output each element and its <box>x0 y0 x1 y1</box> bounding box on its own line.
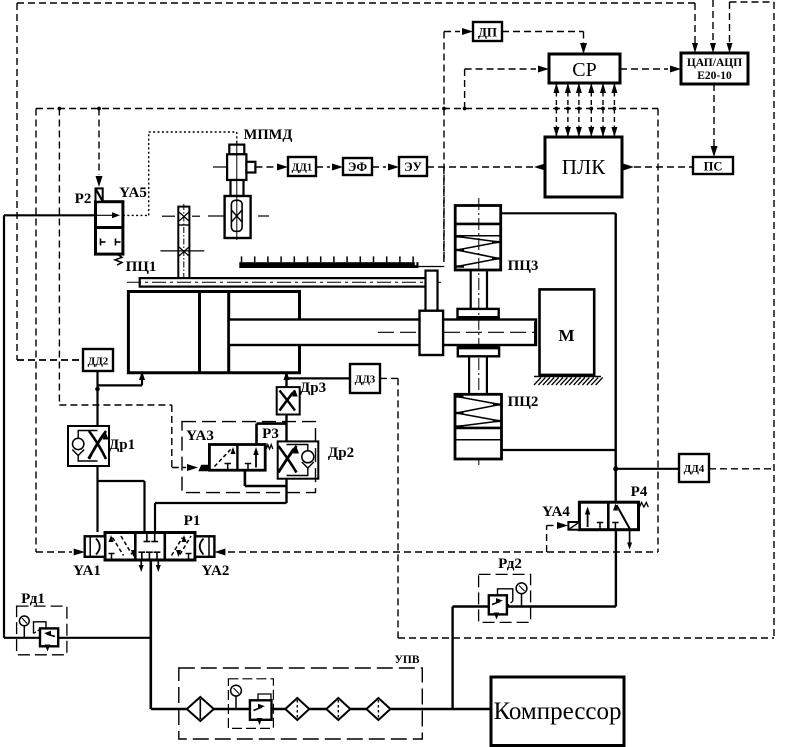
wire dashed outer top bus (DD2 to DAC) <box>17 2 695 4</box>
wire PC1 left port line <box>141 373 143 385</box>
block DAC/ADC E20-10 <box>681 53 748 84</box>
wire dashed right-side vertical bus (DD3/DD4 to DAC) <box>773 2 775 638</box>
throttle Dr1 with check valve <box>68 426 109 466</box>
main distribution valve P1 (5/3) with solenoids <box>105 533 195 561</box>
clamp block on rod <box>420 311 444 355</box>
svg-text:МПМД: МПМД <box>244 127 293 143</box>
clamp cylinder PC3 with spring <box>455 206 501 271</box>
svg-text:ПЛК: ПЛК <box>562 155 606 179</box>
wire dashed to solenoid YA4 <box>546 526 548 553</box>
port arrow left of PC1 <box>141 378 143 383</box>
wire DD3 tap <box>287 377 351 379</box>
measuring rack (ruler) with pickup head <box>239 262 418 268</box>
piston rod of PC1 <box>229 320 536 346</box>
throttle Dr2 with check valve <box>278 441 319 478</box>
clamp cylinder PC2 with spring <box>458 347 499 356</box>
block EU amplifier <box>399 157 427 176</box>
svg-text:Р3: Р3 <box>262 426 279 442</box>
svg-text:ПЦ2: ПЦ2 <box>508 394 539 410</box>
wire supply to P2 from Rd1 <box>4 214 96 216</box>
UPV internal regulator with gauge <box>228 679 273 729</box>
svg-text:ЭУ: ЭУ <box>404 160 422 174</box>
wire dashed control bus to YA2/YA4 y=552 <box>228 551 658 553</box>
wire dotted P2 to MPMD control <box>123 214 149 216</box>
wire clamp cylinders vertical to P4 <box>615 213 617 502</box>
block SR (comparator) <box>549 54 620 83</box>
wire Rd1 output line <box>4 637 151 639</box>
svg-text:Др1: Др1 <box>109 437 135 453</box>
svg-text:Рд2: Рд2 <box>498 556 522 572</box>
svg-text:Р4: Р4 <box>631 484 648 500</box>
pressure regulator Rd2 with gauge <box>479 574 531 622</box>
filter (diamond 3) <box>326 698 350 720</box>
wire P1 supply drop <box>150 560 153 709</box>
wire dashed position sensor line to DP <box>443 32 445 263</box>
svg-text:ЦАП/АЦП: ЦАП/АЦП <box>687 57 742 69</box>
wire dashed vertical into DAC from top-left bus <box>694 3 696 50</box>
svg-text:СР: СР <box>572 59 596 81</box>
wire DD2 tap stub <box>96 371 98 385</box>
block DP (position transducer) <box>473 22 502 41</box>
block DD4 pressure sensor <box>679 454 709 482</box>
wire dashed DD3 to right bus <box>380 377 398 379</box>
bracket joining table to rod block <box>426 271 438 312</box>
wire dashed control bus horizontal y=108 <box>36 108 658 110</box>
rod tip at motor <box>534 322 537 345</box>
table bar (moving slide) <box>140 278 428 287</box>
svg-text:YA3: YA3 <box>186 428 214 444</box>
wire dashed SR-PLC data lines (6x) <box>555 83 557 137</box>
wire dashed EU to PLC <box>427 166 545 168</box>
wire dashed bus to SR left input <box>464 69 466 109</box>
svg-text:ПС: ПС <box>704 160 723 174</box>
svg-text:Др2: Др2 <box>328 445 354 461</box>
throttle Dr3 <box>277 387 300 414</box>
wire dashed SR to DAC <box>620 68 668 70</box>
svg-text:YA2: YA2 <box>202 563 230 579</box>
filter (diamond 2) <box>285 698 309 720</box>
block PLC <box>545 137 622 197</box>
wire Dr2 to P1 corner <box>155 502 287 504</box>
block DD3 pressure sensor <box>350 364 380 393</box>
stand column (slider) <box>178 207 189 279</box>
valve P2 (2-position) <box>96 202 123 254</box>
filter (diamond 4) <box>366 698 390 720</box>
air preparation unit UPV enclosure <box>179 668 422 739</box>
wire ruler pickup <box>419 266 444 268</box>
wire dashed vertical into DAC from top edge <box>712 0 714 50</box>
dashed enclosure YA3/P3/Dr2 group <box>182 422 316 493</box>
wire dashed EF to EU <box>372 166 386 168</box>
svg-text:ПЦ1: ПЦ1 <box>126 259 157 275</box>
wire PC1 right port line through Dr3/Dr2 <box>285 373 287 503</box>
wire dashed from pickup up to EU line <box>443 167 445 267</box>
svg-text:ДД3: ДД3 <box>355 374 376 386</box>
node bus junction dots <box>58 107 62 111</box>
wire dashed DP to SR top <box>502 31 584 33</box>
wire compressor main line <box>151 708 491 711</box>
svg-text:ДД2: ДД2 <box>88 356 109 368</box>
wire dashed DAC to PS <box>713 84 715 146</box>
block compressor <box>491 677 624 746</box>
wire P4 to Rd2 <box>615 530 617 607</box>
motor/load block M with ground hatch <box>540 289 595 375</box>
svg-text:Р2: Р2 <box>75 191 92 207</box>
valve P3 (bypass) with solenoid <box>255 424 258 445</box>
block DD2 pressure sensor <box>83 349 113 371</box>
svg-text:ЭФ: ЭФ <box>348 160 368 174</box>
wire dashed PLC to PS <box>634 166 693 168</box>
block DD1 pressure sensor <box>288 157 316 176</box>
wire dashed to solenoid YA2 <box>214 549 225 556</box>
svg-text:YA1: YA1 <box>73 563 101 579</box>
port arrow right of PC1 <box>286 378 288 383</box>
wire dashed DD4 to right bus <box>709 468 774 470</box>
wire dashed DD1 to EF <box>316 166 330 168</box>
svg-text:ДД4: ДД4 <box>684 463 705 475</box>
wire Dr1 to P1 corner <box>98 480 145 482</box>
svg-text:Е20-10: Е20-10 <box>697 70 732 82</box>
filter separator (diamond 1) <box>187 697 214 721</box>
svg-text:Др3: Др3 <box>300 380 326 396</box>
wire PC3 supply <box>501 212 616 214</box>
svg-text:УПВ: УПВ <box>394 654 419 666</box>
wire dashed to solenoid YA3 <box>58 109 60 406</box>
wire DD4 tap <box>616 468 679 470</box>
block EF filter <box>343 158 372 175</box>
pressure regulator Rd1 with gauge <box>17 606 67 655</box>
svg-text:Р1: Р1 <box>184 513 201 529</box>
svg-text:Рд1: Рд1 <box>21 591 45 607</box>
svg-text:ДД1: ДД1 <box>292 162 313 174</box>
svg-text:YA5: YA5 <box>119 185 147 201</box>
svg-text:Компрессор: Компрессор <box>493 698 621 725</box>
block PS <box>693 157 733 174</box>
center line of clamp cylinders <box>478 198 480 465</box>
wire dashed control bus right vertical x=658 <box>657 109 659 553</box>
wire dashed to solenoid YA1 <box>35 109 37 553</box>
wire dashed top-right corner into DAC <box>730 1 775 3</box>
valve P4 (2-position) with solenoid <box>579 502 638 530</box>
svg-text:М: М <box>558 326 574 345</box>
cylinder PC1 body and piston <box>128 292 299 373</box>
svg-text:ДП: ДП <box>478 25 497 40</box>
sensor MPMD (micro displacement measuring device) <box>229 145 244 155</box>
svg-text:YA4: YA4 <box>542 504 570 520</box>
wire PC2 supply <box>502 449 616 451</box>
wire dashed to solenoid YA5 of P2 <box>98 109 100 176</box>
wire dashed MPMD to DD1 <box>255 166 274 168</box>
svg-text:ПЦ3: ПЦ3 <box>508 258 539 274</box>
wire dashed DD2 left to outer bus <box>17 359 83 361</box>
